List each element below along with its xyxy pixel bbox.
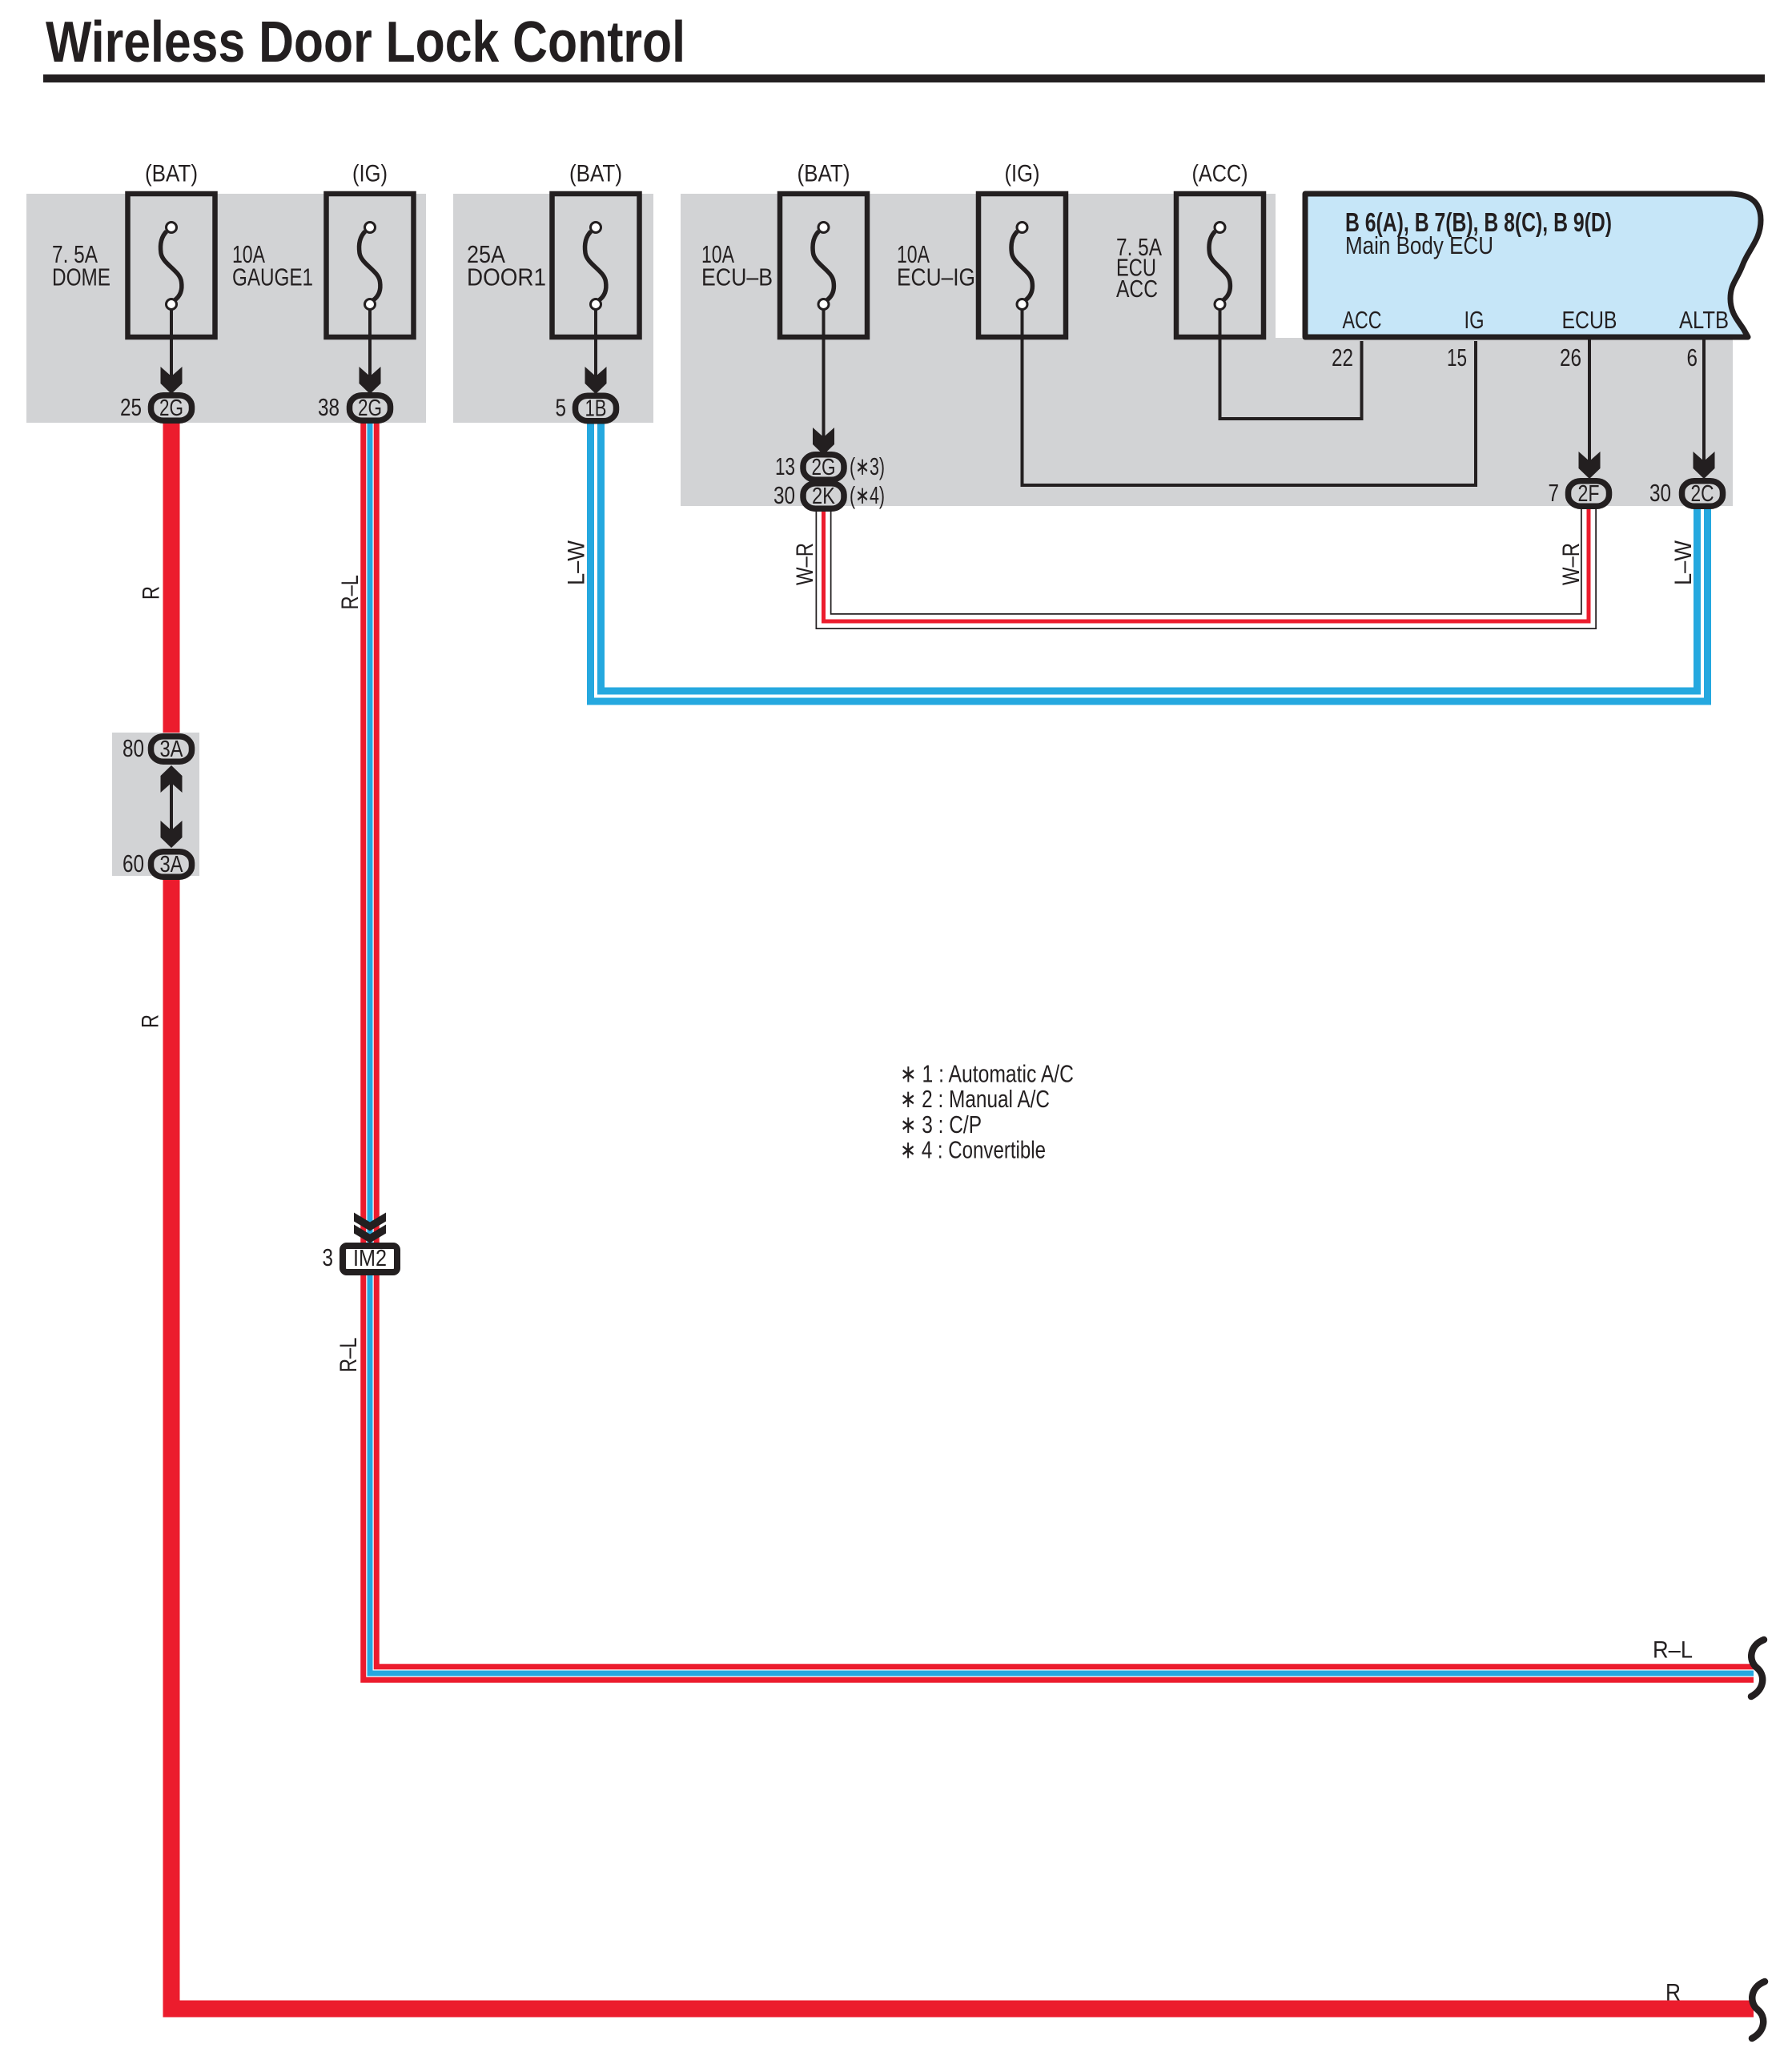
fuse 10A ECU-IG [978,194,1066,337]
svg-text:30: 30 [773,481,795,509]
svg-text:(ACC): (ACC) [1192,161,1248,187]
svg-text:2G: 2G [812,455,836,480]
svg-text:∗ 4 : Convertible: ∗ 4 : Convertible [900,1136,1046,1164]
wire L-W from 5/1B to 30/2C [596,424,1702,697]
svg-text:3A: 3A [160,852,184,877]
svg-text:2K: 2K [812,484,836,509]
svg-text:ALTB: ALTB [1679,306,1729,334]
svg-text:38: 38 [318,393,340,421]
svg-text:DOME: DOME [52,263,110,291]
fuse 25A DOOR1 [552,194,640,337]
fuse GAUGE1 output shaft [368,309,372,386]
connector oval 13/2G [803,455,844,480]
svg-text:(BAT): (BAT) [798,161,850,187]
svg-text:25: 25 [120,393,142,421]
junction block gray panel 2 (DOOR1) [453,194,653,423]
svg-text:(∗3): (∗3) [850,452,885,480]
Main Body ECU box [1305,194,1761,337]
ECU pin ECUB stub [1588,336,1591,468]
svg-text:IG: IG [1465,306,1485,334]
fuse DOME output shaft [170,309,173,386]
fuse 7.5A ECU ACC [1176,194,1264,337]
connector oval 7/2F [1569,481,1609,507]
svg-text:DOOR1: DOOR1 [467,263,546,291]
svg-text:ACC: ACC [1343,306,1382,334]
svg-text:(BAT): (BAT) [145,161,198,187]
svg-text:IM2: IM2 [353,1246,387,1271]
wire IG (black) fuse to ECU pin 15 [1023,309,1477,485]
svg-text:(IG): (IG) [1005,161,1040,187]
svg-text:∗ 3 : C/P: ∗ 3 : C/P [900,1110,982,1138]
svg-text:ECUB: ECUB [1562,306,1617,334]
wire R (red thick) from 2G down and along bottom [171,421,1754,2009]
svg-text:ECU–IG: ECU–IG [897,263,975,291]
arrow into 30/2C [1694,452,1715,479]
IM2 in-line connector [323,1213,398,1273]
fuse 7.5A DOME [128,194,215,337]
svg-text:L–W: L–W [564,540,590,585]
svg-text:13: 13 [775,452,795,480]
svg-text:30: 30 [1649,479,1671,507]
connector oval 38/2G [350,396,391,421]
svg-text:2G: 2G [358,396,382,421]
svg-text:7: 7 [1549,479,1560,507]
connector oval 60/3A [151,852,192,877]
wire R-L from 38/2G via IM2 to right break [370,423,1754,1673]
svg-text:∗ 1 : Automatic A/C: ∗ 1 : Automatic A/C [900,1060,1074,1088]
svg-text:5: 5 [556,394,567,422]
svg-text:26: 26 [1560,343,1581,371]
connector oval 30/2K [803,484,844,509]
wire W-R from 30/2K to 7/2F [824,503,1589,621]
arrow into 38/2G [360,367,381,394]
connector oval 80/3A [151,737,192,762]
svg-text:R–L: R–L [337,575,364,610]
svg-text:3A: 3A [160,737,184,762]
connector oval 30/2C [1682,481,1723,507]
svg-text:R: R [1665,1980,1681,2006]
fuse 10A ECU-B [780,194,867,337]
fuse DOOR1 output shaft [594,309,597,386]
arrow into 13/2G [813,428,834,455]
fuse 10A GAUGE1 [327,194,414,337]
3A junction arrow shaft [170,767,173,846]
svg-text:L–W: L–W [1670,540,1697,585]
junction block gray panel 1 (DOME/GAUGE1) [26,194,426,423]
connector pair gray box (3A junction) [112,733,199,876]
svg-text:Wireless Door Lock Control: Wireless Door Lock Control [46,10,685,74]
svg-text:80: 80 [123,734,144,762]
3A junction arrow down [161,821,183,848]
svg-text:60: 60 [123,849,144,877]
svg-text:GAUGE1: GAUGE1 [232,263,313,291]
svg-text:Main Body ECU: Main Body ECU [1345,231,1493,259]
svg-text:R: R [139,586,165,600]
svg-text:W–R: W–R [1558,543,1585,585]
arrow into 25/2G [161,367,183,394]
junction block gray panel 3 (ECU fuses + Main Body ECU) [681,194,1733,506]
title rule [43,74,1765,82]
svg-text:1B: 1B [585,396,607,422]
svg-text:R: R [138,1014,164,1028]
svg-text:(IG): (IG) [352,161,388,187]
svg-text:2G: 2G [159,396,183,421]
svg-text:R–L: R–L [335,1338,362,1373]
fuse ECU-B output shaft [822,309,826,447]
svg-text:(BAT): (BAT) [569,161,622,187]
svg-text:2F: 2F [1578,481,1600,507]
break symbol on R wire [1752,1982,1765,2038]
arrow into 5/1B [585,367,607,394]
wire ACC (black) fuse to ECU pin 22 [1220,309,1362,419]
svg-text:R–L: R–L [1653,1637,1693,1664]
svg-text:∗ 2 : Manual A/C: ∗ 2 : Manual A/C [900,1085,1050,1113]
connector oval 5/1B [576,396,617,421]
svg-text:3: 3 [323,1243,334,1271]
svg-text:(∗4): (∗4) [850,481,885,509]
svg-text:15: 15 [1447,343,1467,371]
connector oval 25/2G [151,396,192,421]
svg-text:W–R: W–R [792,543,818,585]
3A junction arrow up [161,765,183,793]
white notch between ACC fuse area and ECU box [1276,194,1305,338]
svg-text:2C: 2C [1691,481,1714,507]
svg-text:6: 6 [1687,343,1698,371]
arrow into 7/2F [1579,452,1601,479]
svg-text:22: 22 [1332,343,1353,371]
svg-text:ACC: ACC [1116,275,1158,303]
ECU pin ALTB stub [1702,336,1706,468]
svg-text:ECU–B: ECU–B [701,263,773,291]
break symbol on R-L wire [1751,1640,1764,1697]
